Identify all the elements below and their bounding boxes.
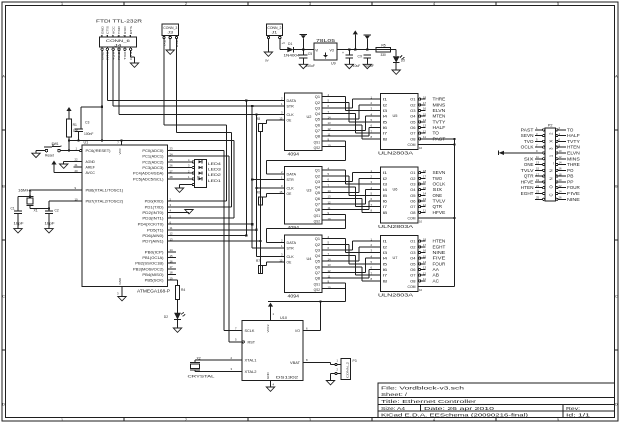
svg-text:ATMEGA168-P: ATMEGA168-P [137,288,170,293]
svg-text:O2: O2 [410,103,415,107]
svg-text:I1: I1 [383,98,388,102]
svg-text:R5: R5 [381,44,385,48]
svg-text:28: 28 [170,175,174,179]
svg-text:14: 14 [423,118,427,122]
svg-text:24: 24 [559,190,562,194]
ground below D2 [173,328,181,332]
svg-text:ULN2803A: ULN2803A [378,293,413,298]
svg-text:J3: J3 [168,31,174,35]
wire U10 IO pin 6 [303,330,321,332]
junction strobe trunk / STR run [251,105,253,107]
svg-text:DATA: DATA [287,172,297,176]
svg-text:I8: I8 [383,279,388,283]
svg-text:14: 14 [423,192,427,196]
svg-text:DATA: DATA [287,99,297,103]
capacitor C5 100uF [302,50,304,56]
svg-text:File: Vordblock-v3.sch: File: Vordblock-v3.sch [381,385,465,390]
svg-text:I4: I4 [383,188,388,192]
ground below C5 [299,64,307,68]
svg-text:78L05: 78L05 [316,38,336,43]
svg-text:LED4: LED4 [208,162,221,166]
svg-text:AVCC: AVCC [86,171,96,175]
svg-text:I7: I7 [383,274,388,278]
svg-text:23: 23 [170,147,174,151]
svg-text:O7: O7 [410,274,415,278]
svg-text:CONN_3: CONN_3 [163,26,177,30]
svg-text:12: 12 [423,203,427,207]
push button SW1 Reset [44,142,62,157]
svg-text:SCLK: SCLK [245,329,256,333]
wire J3 pin3 down (TXD serial net) [176,39,178,133]
svg-text:DATA: DATA [287,241,297,245]
svg-text:ULN2803A: ULN2803A [378,224,413,229]
svg-text:PO: PO [567,168,574,173]
svg-text:Q4: Q4 [315,112,320,116]
svg-text:HTEN: HTEN [433,239,446,244]
svg-text:C3: C3 [85,121,89,125]
ground at SW1 [32,153,40,157]
svg-text:18: 18 [559,172,562,176]
ground below C1 [14,229,22,233]
svg-text:C1: C1 [11,206,15,210]
svg-text:OCLK: OCLK [521,145,534,150]
svg-text:U5: U5 [393,113,398,118]
svg-text:PD2(INT0): PD2(INT0) [142,211,163,215]
svg-text:R6: R6 [256,190,260,194]
svg-text:2: 2 [185,418,187,422]
svg-text:MINS: MINS [567,156,580,161]
svg-text:P3: P3 [353,359,357,363]
wire RST trunk into U10 pin 5 [229,341,242,343]
svg-text:PC6(/RESET): PC6(/RESET) [86,149,111,153]
junction strobe trunk / U3 STR [251,178,253,180]
LED D2 [174,313,181,320]
svg-text:O4: O4 [410,188,415,192]
svg-text:QTR: QTR [433,204,443,209]
U10 ground pin [270,381,272,388]
svg-text:GND: GND [118,277,122,285]
wire TXD net to MCU PD1 [230,133,232,207]
svg-text:C: C [615,294,618,298]
MCU left pins [74,147,124,204]
svg-text:I5: I5 [383,262,388,266]
svg-text:O8: O8 [410,279,415,283]
svg-text:5: 5 [557,2,559,6]
svg-text:ELVN: ELVN [567,150,580,155]
svg-text:13: 13 [423,197,427,201]
svg-text:Q7: Q7 [315,271,320,275]
svg-text:O6: O6 [410,268,415,272]
svg-text:QS2: QS2 [314,288,321,292]
svg-text:11: 11 [423,209,426,213]
svg-text:NINE: NINE [433,250,446,255]
svg-text:COM: COM [408,143,416,147]
svg-text:15: 15 [423,112,427,116]
svg-text:VBAT: VBAT [290,361,301,365]
svg-text:PB3(MOSI/OC2): PB3(MOSI/OC2) [133,267,164,271]
svg-text:XTAL2: XTAL2 [245,370,257,374]
svg-text:19: 19 [170,276,174,280]
crystal X1 16MHz [18,189,38,213]
svg-text:4: 4 [433,2,435,6]
svg-text:FTDI TTL-232R: FTDI TTL-232R [96,19,143,24]
junction J4 +5V / C3 rail [101,106,103,108]
svg-text:TVLV: TVLV [433,199,446,204]
svg-text:HALF: HALF [433,125,446,130]
svg-text:SEVN: SEVN [433,170,446,175]
junction input rail / C5 [302,49,304,51]
svg-text:I3: I3 [383,183,388,187]
resistor R5 330 [376,48,391,52]
ground below U10 [266,387,274,391]
svg-text:HTEN: HTEN [521,185,534,190]
MCU right pins port D [138,197,176,243]
shift register U3 4094 [279,166,331,230]
svg-text:TVTY: TVTY [433,119,446,124]
svg-text:D2: D2 [164,315,168,319]
svg-text:15: 15 [536,167,539,171]
resistor R8 on U2 OE [256,117,285,131]
svg-text:QS2: QS2 [314,146,321,150]
svg-text:4094: 4094 [288,152,300,157]
ground flag at P2 pin9 [499,151,504,155]
svg-text:OE: OE [287,119,293,123]
svg-text:O6: O6 [410,126,415,130]
svg-text:4094: 4094 [288,225,300,230]
ground at J3 pin2 [166,50,174,54]
svg-text:HFVE: HFVE [521,179,534,184]
svg-text:Q2: Q2 [315,243,320,247]
wire P2 pin9 to ground flag [504,152,535,154]
svg-text:QTR: QTR [524,174,534,179]
resistor R1 pullup with +5V [66,107,79,151]
power flag on output rail [364,34,372,36]
wire U5 O8 PAST to trunk top [426,138,455,140]
svg-text:U10: U10 [280,316,287,320]
svg-text:TO: TO [433,131,440,136]
MCU right pins port B [133,248,176,283]
ground at J4 pin6 [130,63,138,67]
svg-text:11: 11 [170,226,173,230]
driver U5 ULN2803A [370,94,445,156]
svg-text:I4: I4 [383,115,388,119]
svg-text:23: 23 [536,190,539,194]
svg-text:Q5: Q5 [315,260,320,264]
svg-text:RST: RST [248,341,256,345]
svg-text:AB: AB [433,273,439,278]
junction clock trunk / CLK run [255,113,257,115]
capacitor C6 10uF [348,50,350,56]
svg-text:17: 17 [423,101,427,105]
svg-text:GND: GND [100,25,104,34]
svg-text:I7: I7 [383,205,388,209]
svg-text:13: 13 [536,161,539,165]
svg-text:TVLV: TVLV [521,168,534,173]
junction data trunk / DATA run [245,99,247,101]
svg-text:12: 12 [559,155,562,159]
wires U3 outputs to driver inputs (braid) [322,170,375,212]
svg-text:O3: O3 [410,183,415,187]
svg-text:26: 26 [559,195,562,199]
svg-text:GND: GND [266,372,270,380]
svg-text:10: 10 [419,288,423,292]
svg-text:O5: O5 [410,262,415,266]
svg-text:17: 17 [170,265,174,269]
svg-text:TXD: TXD [123,50,127,60]
svg-text:PP: PP [567,179,573,184]
svg-text:U9: U9 [331,62,336,66]
svg-text:CLK: CLK [287,255,295,259]
svg-text:16: 16 [423,180,427,184]
svg-text:EGHT: EGHT [433,244,446,249]
driver U6 ULN2803A [370,167,445,229]
svg-text:I8: I8 [383,211,388,215]
ground at P3 [326,381,334,385]
svg-text:Q8: Q8 [315,135,320,139]
svg-text:CX: CX [358,54,363,58]
svg-text:PD5(T1): PD5(T1) [147,228,163,232]
svg-text:27: 27 [170,169,174,173]
svg-text:OE: OE [287,192,293,196]
shift register U4 4094 [279,235,331,299]
junction crystal top [29,196,31,198]
svg-text:26: 26 [170,164,174,168]
svg-text:Size: A4: Size: A4 [381,406,406,411]
svg-text:Q1: Q1 [315,237,320,241]
svg-text:24: 24 [170,152,174,156]
svg-text:Sheet: /: Sheet: / [381,392,408,397]
svg-text:O1: O1 [410,171,415,175]
VCC rail to MCU VCC pin and PD3 branch [69,140,234,142]
svg-text:ONE: ONE [524,162,534,167]
svg-text:XTAL1: XTAL1 [245,359,257,363]
LED array U8 (LED1-LED4) [188,158,221,188]
svg-text:PC0(ADC0): PC0(ADC0) [142,149,163,153]
svg-text:LED2: LED2 [208,173,221,177]
svg-text:PB4(MISO): PB4(MISO) [142,273,163,277]
svg-text:R7: R7 [256,259,260,263]
+5V at U10 VCC2 [268,303,273,307]
svg-text:THRE: THRE [433,97,446,102]
resistor R6 on U3 OE [256,190,285,204]
svg-text:U7: U7 [393,255,398,260]
svg-text:20: 20 [75,169,79,173]
svg-text:14: 14 [559,161,562,165]
svg-text:Q3: Q3 [315,180,320,184]
wire AVCC to +5V [54,172,74,174]
svg-text:19: 19 [536,178,539,182]
junction crystal bottom / C2 [48,207,50,209]
shift register U2 4094 [279,93,331,157]
svg-text:PC5(ADC5/SCL): PC5(ADC5/SCL) [133,177,164,181]
wire J1 pin2 to diode D1 [279,39,281,50]
svg-text:12: 12 [423,129,427,133]
svg-text:VCC2: VCC2 [266,324,270,332]
svg-text:D1: D1 [288,42,292,46]
svg-text:Q1: Q1 [315,169,320,173]
svg-text:I1: I1 [383,240,388,244]
svg-text:PB: PB [567,174,573,179]
svg-text:21: 21 [536,184,539,188]
junction VCC rail / R1 [68,139,70,141]
svg-text:PB7(XTAL2/TOSC2): PB7(XTAL2/TOSC2) [86,200,124,204]
svg-text:HTEN: HTEN [567,145,580,150]
svg-text:ULN2803A: ULN2803A [378,151,413,156]
svg-text:CONN_13X2: CONN_13X2 [548,132,553,197]
wire J4 pin6 to ground [130,50,132,57]
svg-text:LED3: LED3 [208,168,221,172]
junction IO riser [319,300,321,302]
regulator U9 78L05 [314,38,337,65]
svg-text:PD0(RXD): PD0(RXD) [145,200,164,204]
wire strobe trunk to U4 STR [252,247,284,249]
svg-text:AGND: AGND [86,160,96,164]
svg-text:QS1: QS1 [314,214,321,218]
ground below C2 [45,229,53,233]
ground below C6 [345,64,353,68]
+5V at AVCC [51,161,56,165]
svg-text:PD3(INT1): PD3(INT1) [142,217,163,221]
svg-text:I8: I8 [383,137,388,141]
svg-text:17: 17 [536,172,539,176]
svg-text:O3: O3 [410,109,415,113]
svg-text:20: 20 [559,178,562,182]
title block [378,383,615,418]
svg-text:Id: 1/1: Id: 1/1 [566,412,591,417]
svg-text:U2: U2 [307,114,312,119]
LED D5 [393,56,400,62]
ground below D5 [392,70,400,74]
svg-text:KiCad E.D.A. EESchema (200902: KiCad E.D.A. EESchema (20090216-final) [381,412,529,417]
svg-text:VCC: VCC [111,25,115,34]
wire J4 pin2 to U2 DATA net [106,50,108,100]
wire X2 to U10 XTAL1 pin 2 [194,360,196,362]
svg-text:AREF: AREF [86,166,95,170]
svg-text:MINS: MINS [433,102,446,107]
svg-text:RTS: RTS [129,26,133,34]
cascade wire U2 QS to U3 DATA [322,140,346,142]
svg-text:FIVE: FIVE [567,191,580,196]
svg-text:Q2: Q2 [315,101,320,105]
svg-text:330: 330 [381,53,387,57]
svg-text:FOUR: FOUR [433,261,446,266]
svg-text:Q7: Q7 [315,129,320,133]
svg-text:PC3(ADC3): PC3(ADC3) [142,166,163,170]
svg-text:I2: I2 [383,177,388,181]
svg-text:PD1(TXD): PD1(TXD) [145,205,164,209]
svg-text:O5: O5 [410,120,415,124]
wire VCC rail branch to MCU PD3 [233,141,235,219]
wire J3 pin1 down (RXD serial net) [163,39,165,125]
svg-text:15: 15 [423,186,427,190]
svg-text:O2: O2 [410,245,415,249]
svg-text:O7: O7 [410,132,415,136]
svg-text:17: 17 [423,243,427,247]
svg-text:SEVN: SEVN [521,133,534,138]
svg-text:+V: +V [282,41,286,45]
svg-text:VO: VO [330,48,335,52]
svg-text:I5: I5 [383,120,388,124]
svg-text:TXD: TXD [117,25,121,34]
wire J4 pin4 to U2 CLK net [118,50,120,114]
svg-text:ONE: ONE [433,193,443,198]
svg-text:CONN_6: CONN_6 [106,38,131,43]
capacitor C2 18pF [45,210,53,212]
svg-text:QS2: QS2 [314,220,321,224]
svg-text:1N4004: 1N4004 [284,54,300,58]
junction data trunk / PD6 [245,234,247,236]
wire MCU PB5 to resistor R4 [176,279,178,281]
svg-text:O3: O3 [410,251,415,255]
svg-text:I1: I1 [383,171,388,175]
svg-text:PB0(ICP): PB0(ICP) [145,250,164,254]
capacitor CX 100uF [363,54,371,56]
svg-text:Q3: Q3 [315,106,320,110]
svg-text:O1: O1 [410,240,415,244]
svg-text:SIX: SIX [433,187,443,192]
svg-text:O8: O8 [410,211,415,215]
wire crystal leg to C1 [18,196,30,198]
ground flag at PD2 [185,210,193,214]
svg-text:CONN_2: CONN_2 [267,26,281,30]
svg-text:U6: U6 [393,187,398,192]
svg-text:RXD: RXD [123,25,127,34]
svg-text:I2: I2 [383,245,388,249]
svg-text:PB5(SCK): PB5(SCK) [145,279,164,283]
wire MCU PD5 to clock trunk [176,229,257,231]
ground at AGND [60,164,68,168]
svg-text:10: 10 [559,149,562,153]
svg-text:PAST: PAST [521,127,534,132]
svg-text:D: D [615,402,618,406]
wire D1 to regulator U9 input [294,49,315,51]
svg-text:PD4(XCK/T0): PD4(XCK/T0) [138,223,164,227]
svg-text:Q6: Q6 [315,197,320,201]
junction OE trunk / PD7 [259,240,261,242]
svg-text:25: 25 [170,158,174,162]
svg-text:16: 16 [559,167,562,171]
svg-text:LED1: LED1 [208,179,221,183]
svg-text:QS1: QS1 [314,140,321,144]
svg-text:VI: VI [315,48,318,52]
wire PB7 to C2 [49,200,82,202]
svg-text:D: D [2,402,5,406]
wire AGND to ground [64,160,74,162]
svg-text:18: 18 [170,271,174,275]
svg-text:OCLK: OCLK [433,182,446,187]
svg-text:OE: OE [287,261,293,265]
svg-text:C: C [2,294,5,298]
svg-text:O2: O2 [410,177,415,181]
svg-text:Q6: Q6 [315,265,320,269]
wire SW1 to ground [36,150,45,152]
wire MCU PC1 to DS1302 RST trunk [176,155,229,157]
svg-text:13: 13 [423,266,427,270]
connector P2 CONN_13X2 [521,124,580,202]
svg-text:+: + [342,51,344,55]
svg-text:Q8: Q8 [315,208,320,212]
wire crystal bottom leg [29,206,31,209]
wires U4 outputs to driver inputs (braid) [322,239,375,281]
svg-text:CTS: CTS [106,26,110,34]
svg-text:4: 4 [433,418,435,422]
svg-text:25: 25 [536,195,539,199]
MCU ground pin [121,286,123,296]
svg-text:AA: AA [433,267,439,272]
wire J3 pin2 to ground [169,39,171,50]
svg-text:12: 12 [170,232,174,236]
svg-text:AC: AC [433,278,439,283]
